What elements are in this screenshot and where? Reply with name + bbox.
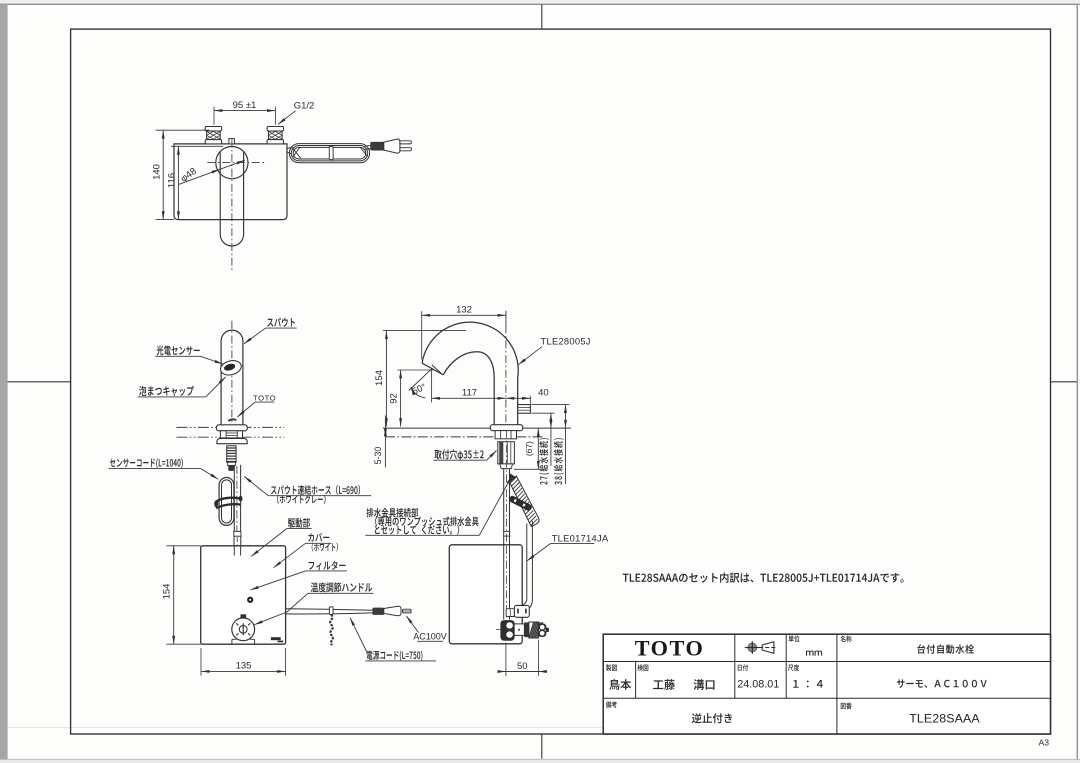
dimension 50 degrees	[411, 387, 425, 398]
svg-text:92: 92	[389, 393, 400, 404]
plug strain relief front view	[373, 608, 384, 614]
supply height extension lines	[532, 404, 570, 406]
svg-text:132: 132	[456, 305, 472, 316]
toto print on box	[271, 637, 281, 640]
label hizuke	[738, 664, 748, 670]
label sensor cord	[110, 458, 183, 468]
top scanner strip	[0, 0, 1080, 4]
hose hatching	[510, 477, 517, 484]
photo sensor window	[219, 359, 243, 378]
checker mizoguchi	[694, 679, 715, 690]
check valve middle	[514, 624, 524, 636]
drain note	[366, 508, 418, 518]
check valve hatched nut	[529, 622, 539, 638]
dimension 135	[200, 648, 202, 676]
label shakudo	[788, 664, 799, 671]
hose clamp	[508, 495, 532, 512]
dimension 92	[397, 369, 433, 371]
label cover white	[312, 543, 338, 552]
base flange side view	[490, 425, 522, 431]
dimension 38 supply	[565, 405, 567, 484]
hanging cord strap	[330, 615, 333, 646]
svg-text:95 ±1: 95 ±1	[233, 100, 257, 111]
third-angle projection symbol	[748, 643, 757, 652]
scale 1:4	[793, 680, 823, 688]
two-hole connector block	[506, 609, 514, 617]
remark gyakudome-tsuki	[692, 713, 732, 723]
cord tie front view	[329, 607, 333, 615]
checker kudo	[653, 679, 675, 690]
dimension 40	[529, 396, 531, 404]
G1/2 hose connector left	[205, 127, 221, 132]
dimension 5-30	[384, 415, 386, 467]
svg-text:TOTO: TOTO	[253, 393, 276, 402]
counter top line front view	[176, 426, 284, 428]
svg-text:TLE28SAAA: TLE28SAAA	[909, 712, 980, 726]
dimension 132	[421, 311, 423, 359]
riser centerline side view	[505, 311, 507, 428]
power cord coil top view	[287, 147, 292, 149]
dimension 50	[505, 643, 507, 676]
check valve left block	[501, 621, 514, 641]
cord tie top view	[329, 146, 333, 159]
shank nut side view	[495, 431, 516, 439]
hose stub inside box	[233, 547, 235, 556]
power cord front view	[286, 609, 373, 611]
label biko	[606, 701, 617, 708]
svg-text:40: 40	[538, 387, 549, 398]
svg-text:TLE01714JA: TLE01714JA	[552, 534, 609, 544]
thermo ac100v	[897, 679, 987, 688]
plug prongs front view	[403, 609, 411, 613]
label drive unit	[288, 518, 310, 528]
dimension 27 supply	[550, 413, 552, 466]
label kenzu	[637, 664, 648, 671]
label photoelectric sensor	[156, 346, 199, 356]
temperature dial	[241, 615, 246, 619]
top view spout	[220, 152, 243, 246]
svg-text:117: 117	[462, 388, 477, 399]
drain rod	[503, 469, 505, 545]
top view body outline	[174, 144, 287, 220]
counter bottom line front view	[176, 436, 284, 438]
spout tip face	[422, 363, 443, 375]
label meisho	[840, 636, 851, 643]
dimension 154 side	[383, 329, 466, 331]
centering mark left	[8, 381, 71, 383]
label seizu	[606, 664, 617, 671]
title block grid	[603, 634, 1050, 734]
centering mark top	[541, 4, 543, 29]
counter top line side view	[383, 427, 571, 429]
right page edge	[1076, 4, 1078, 759]
svg-text:135: 135	[236, 661, 252, 672]
dimension 95±1	[214, 110, 275, 112]
svg-text:(67): (67)	[524, 441, 534, 456]
bottom scanner strip	[0, 760, 1080, 763]
connection hose vertical	[526, 524, 528, 600]
svg-text:5-30: 5-30	[373, 447, 383, 465]
plug prongs top view	[400, 141, 411, 144]
drafter torimoto	[609, 679, 631, 690]
paper fold line	[8, 726, 602, 728]
drain connection wedge	[510, 473, 515, 482]
svg-text:TLE28005J: TLE28005J	[541, 336, 591, 346]
spout hose front view	[233, 465, 235, 532]
filter dot	[248, 598, 252, 602]
dimension 154 front	[166, 545, 200, 547]
toto print tick on spout	[228, 419, 236, 421]
shank body side view	[498, 442, 515, 464]
mounting nut between counter lines	[220, 431, 242, 438]
svg-text:140: 140	[151, 164, 162, 180]
svg-text:24.08.01: 24.08.01	[737, 679, 779, 691]
plug body front view	[384, 606, 401, 615]
dimension 117	[431, 369, 433, 403]
centering mark bottom	[541, 734, 543, 759]
threaded shank front view	[227, 446, 236, 462]
svg-text:G1/2: G1/2	[294, 100, 315, 111]
svg-text:116: 116	[166, 173, 177, 188]
plug strain relief top view	[371, 142, 384, 150]
label temperature handle	[311, 582, 372, 592]
front spout centerline	[231, 321, 233, 424]
gooseneck outer profile	[422, 322, 518, 425]
counter bottom line side view	[385, 436, 543, 438]
sensor cord loop	[219, 478, 234, 526]
plug body top view	[384, 139, 400, 153]
label power cord	[367, 651, 423, 661]
gooseneck inner profile	[443, 352, 494, 425]
label mounting hole	[434, 449, 483, 460]
label zuban	[841, 703, 852, 709]
label spout hose	[271, 485, 360, 495]
centering mark right	[1051, 381, 1077, 383]
svg-text:154: 154	[162, 584, 173, 600]
dimension 140	[162, 130, 164, 219]
top view sensor stub	[229, 139, 235, 144]
spout angle reference line	[409, 368, 432, 390]
svg-text:A3: A3	[1039, 738, 1050, 748]
label spout	[267, 318, 295, 327]
lock nut dome under counter	[217, 438, 247, 443]
top view horizontal centerline	[207, 162, 266, 164]
name daitsuki jido suisen	[917, 644, 974, 653]
label white gray	[277, 495, 326, 504]
check valve dark band	[524, 622, 529, 637]
top view faucet base circle	[216, 147, 248, 179]
valve centerline	[496, 628, 548, 630]
driver box front view	[201, 546, 286, 644]
svg-text:154: 154	[374, 370, 385, 386]
label awamatsu cap	[139, 386, 194, 396]
cord loop wrap bands	[216, 498, 242, 502]
sensor cord connector	[229, 466, 234, 471]
svg-text:TOTO: TOTO	[635, 635, 705, 660]
top view vertical centerline	[231, 139, 233, 270]
dimension 116	[177, 146, 179, 219]
dimension φ48	[179, 160, 245, 184]
label cover	[308, 533, 329, 542]
controller box side view	[449, 545, 522, 644]
water supply outlet	[518, 405, 531, 414]
svg-text:50: 50	[517, 661, 528, 672]
set contents note	[623, 572, 904, 582]
label tanni	[789, 635, 800, 642]
label filter	[309, 561, 346, 570]
connection hose diagonal	[510, 476, 539, 527]
G1/2 hose connector right	[267, 127, 283, 132]
left scanner strip	[0, 4, 8, 760]
rod through box	[503, 546, 505, 620]
shank end block	[228, 462, 236, 465]
front spout body	[221, 330, 243, 425]
check valve right end	[539, 624, 546, 637]
unit mm	[806, 650, 822, 655]
base flange front view	[216, 425, 247, 431]
svg-text:AC100V: AC100V	[413, 632, 447, 642]
dimension (67)	[537, 428, 539, 469]
